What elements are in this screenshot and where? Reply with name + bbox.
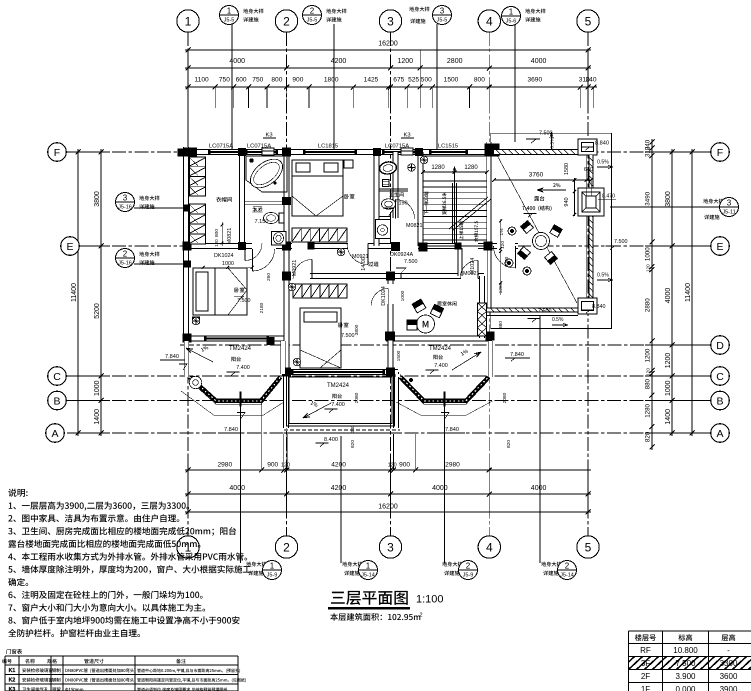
cloakroom wardrobe left [190,157,206,196]
svg-text:1000: 1000 [665,380,672,396]
grid centerlines [187,32,189,536]
svg-text:5200: 5200 [94,303,101,319]
svg-text:7.840: 7.840 [224,427,238,433]
master bath basin [272,232,287,246]
svg-text:4000: 4000 [665,288,672,304]
svg-text:900: 900 [267,462,278,469]
svg-text:0.5%: 0.5% [597,273,609,279]
svg-text:E: E [66,241,73,253]
bay extension lines to dims [261,403,263,470]
funnel drain DK0924A [396,268,406,273]
balcony left bay window band [190,377,281,401]
svg-text:K3: K3 [403,133,410,139]
svg-text:3800: 3800 [94,191,101,207]
window LC0715A-3 [383,150,416,155]
familyroom east wall [480,276,485,338]
svg-text:240: 240 [350,425,355,433]
svg-text:1800: 1800 [324,77,339,84]
svg-text:2: 2 [310,7,315,16]
svg-text:675: 675 [393,77,404,84]
wall bath strip east [393,152,398,218]
room labels [216,197,232,202]
familyroom south wall [386,336,492,341]
svg-text:2180: 2180 [259,302,265,313]
svg-text:2: 2 [565,562,570,571]
title [331,591,408,605]
svg-text:5: 5 [585,14,592,28]
wall 4 [487,142,492,246]
grid bubbles bottom [177,536,199,558]
svg-text:F: F [54,147,60,159]
bath2 washer [376,220,391,239]
grid bubbles left [48,143,67,162]
svg-text:3: 3 [440,7,445,16]
svg-text:2: 2 [283,540,290,554]
svg-text:1000: 1000 [222,261,234,267]
svg-text:J5-5: J5-5 [224,18,235,24]
svg-text:1000: 1000 [400,290,406,301]
svg-text:800: 800 [271,77,282,84]
window LC1815 [304,150,356,155]
svg-text:C: C [53,371,61,383]
svg-text:120: 120 [281,463,290,469]
svg-text:J5-5: J5-5 [307,18,318,24]
wall 1 left exterior [184,147,189,341]
top dimension lines [185,86,597,88]
svg-text:3800: 3800 [354,324,360,335]
svg-text:750: 750 [219,77,230,84]
top detail leaders [243,9,263,14]
right detail leader [703,199,723,204]
svg-text:1: 1 [270,562,275,571]
balcony right bay window band [401,377,489,401]
svg-text:7.150: 7.150 [255,219,269,225]
svg-text:4000: 4000 [531,485,547,492]
svg-text:0.5%: 0.5% [550,137,556,149]
terrace parapet [494,150,578,155]
bedroom2 south wall (grid D) [183,336,287,341]
master bath toilet [264,213,279,224]
svg-text:1200: 1200 [645,348,652,362]
svg-text:0.5%: 0.5% [597,160,609,166]
svg-text:RF: RF [640,646,651,655]
svg-text:TM2424: TM2424 [229,346,252,352]
bath divider [379,188,409,190]
svg-text:J5-5: J5-5 [437,18,448,24]
stairhall east wall lower [487,249,491,308]
top extension lines [187,87,189,108]
svg-text:5: 5 [585,540,592,554]
svg-text:1000: 1000 [504,256,510,267]
svg-text:1000: 1000 [645,247,652,261]
svg-text:J5-16: J5-16 [118,205,132,211]
svg-text:800: 800 [474,77,485,84]
svg-text:K3: K3 [265,133,272,139]
svg-text:7.840: 7.840 [165,354,179,360]
svg-text:M0821: M0821 [227,228,233,244]
family room furniture [417,315,435,333]
svg-text:J5-14: J5-14 [560,573,574,579]
svg-text:2: 2 [123,250,128,259]
svg-text:7.400: 7.400 [331,402,345,408]
svg-text:16200: 16200 [378,504,398,511]
svg-text:1400: 1400 [94,409,101,425]
floor drain marks [192,317,200,325]
svg-text:7.500: 7.500 [237,298,251,304]
notes [8,489,27,497]
svg-text:7.500: 7.500 [404,259,418,265]
svg-text:3800: 3800 [665,191,672,207]
master bath tub [246,156,287,192]
svg-text:LC0715A: LC0715A [247,144,271,150]
right dimension lines [651,139,653,450]
svg-text:260: 260 [266,273,272,281]
svg-text:4: 4 [486,540,493,554]
svg-text:J5-9: J5-9 [267,573,278,579]
corridor-south wall [310,274,461,279]
svg-text:1425: 1425 [364,77,379,84]
window LC1515 [430,150,467,155]
svg-text:4200: 4200 [331,485,347,492]
svg-text:LC1515: LC1515 [438,144,458,150]
svg-text:900: 900 [292,77,303,84]
flue K3 marks [262,148,274,155]
svg-text:800: 800 [214,229,220,237]
svg-text:2F: 2F [641,672,650,681]
svg-text:M0921: M0921 [292,260,298,276]
svg-text:1400: 1400 [665,409,672,425]
svg-text:900: 900 [399,462,410,469]
bay right side walls [396,374,400,377]
svg-text:1F: 1F [641,685,650,691]
floor table hatch 3F [605,657,751,670]
svg-text:3760: 3760 [529,172,544,179]
bottom dimension lines [185,469,492,471]
bedroom3 wardrobe [293,284,347,298]
bedroom3 door DK1024 [387,289,389,306]
svg-text:LC1815: LC1815 [318,144,338,150]
svg-text:2880: 2880 [645,298,652,312]
svg-text:7.500: 7.500 [341,333,355,339]
left dimension lines [100,149,102,436]
svg-text:11400: 11400 [71,283,78,302]
svg-text:4200: 4200 [331,462,346,469]
svg-text:600: 600 [236,77,247,84]
svg-text:-: - [727,646,730,655]
svg-text:E: E [716,241,723,253]
bedroom3 bed [300,308,341,368]
svg-text:3: 3 [387,14,394,28]
bay left side walls [184,341,188,377]
columns [183,148,197,157]
svg-text:B: B [716,395,723,407]
svg-text:1500: 1500 [444,77,459,84]
midbalcony east wall [394,372,399,428]
master bed side tables [344,160,353,168]
svg-text:1%: 1% [499,228,505,236]
terrace dim 3760 [494,179,591,181]
bath lower divider [379,216,392,218]
terrace elevation marks [526,139,536,143]
window TM2424-mid [292,370,384,375]
bedroom3 south wall [284,370,398,375]
roof outline below bays [181,391,284,415]
svg-text:TM2424: TM2424 [327,383,350,389]
wall 2 [284,152,289,376]
svg-text:3900: 3900 [720,685,738,691]
svg-text:2800: 2800 [447,58,463,65]
svg-text:4000: 4000 [432,485,448,492]
wall E [183,244,518,249]
svg-text:J5-14: J5-14 [361,573,375,579]
svg-text:3600: 3600 [720,672,738,681]
terrace slope diagonal [495,152,577,304]
bottom detail leaders [240,406,242,563]
svg-text:J5-11: J5-11 [722,210,735,216]
svg-text:3690: 3690 [527,77,542,84]
svg-text:7.840: 7.840 [445,427,459,433]
svg-text:B: B [53,395,60,407]
svg-text:J5-9: J5-9 [463,573,474,579]
svg-text:M1024: M1024 [470,258,476,274]
left detail leaders [139,196,159,201]
svg-text:M0821: M0821 [406,223,422,229]
terrace chimney [578,188,604,216]
slope arrows [186,348,213,362]
door-window table bottom-left [5,655,238,657]
svg-text:120: 120 [388,463,397,469]
terrace table set [533,233,550,250]
svg-text:DK1024: DK1024 [214,253,233,259]
master bedroom wardrobe [292,228,347,242]
svg-text:1200: 1200 [398,58,414,65]
window LC0715A-1 [209,150,240,155]
stair texts [424,191,428,214]
svg-text:380: 380 [498,321,504,329]
wall bedroom-east [374,152,379,246]
svg-text:2980: 2980 [217,462,232,469]
svg-text:310: 310 [645,146,652,157]
svg-text:8.470: 8.470 [602,194,615,200]
svg-text:7.400: 7.400 [236,365,250,371]
svg-text:14.00: 14.00 [361,257,367,271]
svg-text:3: 3 [123,194,128,203]
svg-text:LC0715A: LC0715A [209,144,233,150]
wall A2-wc [240,152,245,246]
master bed [292,160,343,216]
svg-text:750: 750 [252,77,263,84]
bay left corner rosette [189,376,201,388]
svg-text:7.400: 7.400 [434,363,448,369]
svg-text:7.150: 7.150 [394,201,408,207]
window LC0715A-2 [246,150,277,155]
familyroom hatched pier [478,303,487,336]
svg-text:1580: 1580 [564,163,570,175]
svg-text:1: 1 [227,7,232,16]
stair block [423,155,487,157]
svg-text:1: 1 [185,14,192,28]
svg-text:1280: 1280 [464,165,478,171]
grid bubbles top [177,10,199,32]
svg-text:3: 3 [387,540,394,554]
svg-text:1280: 1280 [431,165,445,171]
stair break line [449,197,488,229]
corridor east stub wall [458,248,462,276]
svg-text:A: A [716,428,723,440]
svg-text:K2: K2 [9,678,16,684]
balcony mid rect [287,375,395,427]
svg-text:3.900: 3.900 [675,672,696,681]
svg-text:2: 2 [420,613,423,619]
svg-text:C: C [716,371,724,383]
svg-text:2080: 2080 [354,392,360,403]
svg-text:7.840: 7.840 [510,352,524,358]
svg-text:8.840: 8.840 [592,304,606,310]
svg-text:1: 1 [509,8,514,17]
doors [244,244,246,261]
wall bath-stair [418,152,423,246]
svg-text:8.400: 8.400 [324,437,338,443]
svg-text:8.840: 8.840 [595,141,609,147]
svg-text:820: 820 [350,440,356,448]
svg-text:120: 120 [646,368,651,376]
svg-text:7.500: 7.500 [538,309,552,315]
svg-text:F: F [717,147,723,159]
grid bubbles right [711,143,730,162]
svg-text:1000: 1000 [94,380,101,396]
svg-text:2: 2 [283,14,290,28]
svg-text:A: A [51,428,58,440]
svg-text:940: 940 [564,197,570,206]
svg-text:240: 240 [585,77,596,84]
svg-text:10.800: 10.800 [673,646,698,655]
svg-text:1200: 1200 [665,353,672,369]
wall 3 lower [388,276,393,372]
floor table right [629,630,751,632]
svg-text:TM2424: TM2424 [429,346,452,352]
svg-text:500: 500 [421,77,432,84]
midbalcony west wall [284,372,289,428]
svg-text:4000: 4000 [229,485,245,492]
svg-text:4000: 4000 [531,58,547,65]
svg-text:525: 525 [408,77,419,84]
svg-text:120: 120 [214,239,219,247]
svg-text:0.000: 0.000 [675,685,696,691]
svg-text:820: 820 [506,440,512,448]
svg-text:J5-6: J5-6 [506,19,517,25]
bedroom2 bed [193,268,247,315]
svg-text:1:100: 1:100 [416,594,444,606]
svg-text:120: 120 [646,264,651,272]
svg-text:4: 4 [486,14,493,28]
svg-text:4200: 4200 [331,58,347,65]
svg-text:11400: 11400 [685,283,692,302]
svg-text:K3: K3 [9,687,16,691]
svg-text:3: 3 [727,199,732,208]
bath2 basin [379,161,398,175]
svg-text:7.500: 7.500 [614,239,628,245]
svg-text:640: 640 [584,167,593,173]
svg-text:16200: 16200 [378,41,398,48]
svg-text:1500: 1500 [396,350,402,361]
svg-text:880: 880 [645,378,652,389]
svg-text:1260: 1260 [498,282,504,293]
svg-text:0.5%: 0.5% [552,317,564,323]
terrace eave outline box [491,133,612,328]
svg-text:1100: 1100 [195,77,210,84]
corner pier west [178,149,186,157]
svg-text:2080: 2080 [502,392,508,403]
bath2 towel stack [383,180,390,187]
window TM2424-left [205,336,268,341]
svg-text:K1: K1 [9,668,16,674]
svg-text:DK0924A: DK0924A [390,252,413,258]
svg-text:3490: 3490 [645,191,652,205]
exterior wall F [183,150,494,155]
bath2 toilet [382,199,396,209]
svg-text:D: D [716,340,724,352]
svg-text:2980: 2980 [445,462,460,469]
svg-text:LC0715A: LC0715A [385,144,409,150]
svg-text:J5-16: J5-16 [118,261,132,267]
svg-text:DK1024: DK1024 [381,286,387,305]
svg-text:1280: 1280 [645,403,652,417]
svg-text:1: 1 [366,562,371,571]
svg-text:2: 2 [466,562,471,571]
